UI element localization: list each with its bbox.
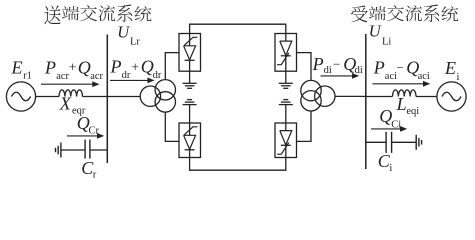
svg-text:Li: Li [382,36,391,47]
wire inductor to rectifier bus [83,96,108,98]
wire bus to rectifier transformer [107,96,140,98]
arrow Q_Cr flow [67,133,104,139]
svg-text:L: L [396,94,407,114]
svg-text:P: P [110,57,122,77]
svg-text:acr: acr [90,71,103,82]
ground (C_i) [416,135,421,150]
svg-text:+: + [131,60,139,75]
ground (rectifier neutral upper) [183,83,197,88]
label C_i [378,151,393,174]
wire transformer to lower valve [165,112,179,141]
svg-text:dr: dr [122,70,131,81]
svg-text:di: di [355,65,363,76]
svg-text:Lr: Lr [130,37,140,48]
svg-text:dr: dr [153,70,162,81]
svg-text:di: di [324,65,332,76]
transformer T_r winding 2 [155,80,175,100]
wire lower valve to transformer T_i [297,111,312,142]
svg-text:eqi: eqi [406,106,419,117]
arrow P_aci-Q_aci flow [372,81,430,87]
wire bus to capacitor C_i [366,141,386,143]
ground (inverter neutral upper) [279,83,293,88]
label P_acr+Q_acr [44,58,104,83]
transformer T_i winding 1 [301,80,321,100]
wire transformer to upper valve [165,53,179,80]
ground (inverter neutral lower) [279,100,293,105]
svg-text:r1: r1 [23,71,32,82]
wire upper valve to transformer T_i [297,53,312,81]
label P_aci-Q_aci [373,57,430,82]
wire valve V3 to ground [285,71,287,83]
wire inductor to source [416,96,437,98]
svg-text:U: U [369,21,382,40]
capacitor C_r [85,140,90,159]
label E_i [444,58,460,83]
wire ground to valve V2 [189,105,191,123]
arrow P_di-Q_di flow [321,73,360,79]
svg-text:Q: Q [78,58,91,78]
wire valve V1 to ground [189,71,191,83]
converter valve V1 (rectifier upper) [179,34,201,72]
svg-text:acr: acr [56,71,69,82]
converter valve V3 (inverter upper) [275,34,297,72]
svg-text:P: P [373,57,385,77]
transformer T_r winding 1 [140,86,160,106]
label U_Lr [117,23,140,48]
arrow P_acr+Q_acr flow [41,81,100,87]
inductor L_eqi [393,90,417,97]
label U_Li [369,21,392,47]
title: sending-end AC system (送端交流系统) [44,4,151,24]
AC source E_r1 [6,82,35,111]
wire ground to valve V4 [285,105,287,123]
label X_eqr [59,94,86,117]
svg-text:i: i [389,163,392,174]
bus U_Li [365,34,367,169]
svg-text:X: X [59,94,72,114]
wire capacitor C_i to ground [392,141,417,143]
converter valve V2 (rectifier lower) [179,123,201,158]
svg-text:E: E [11,58,23,78]
bus U_Lr [106,35,108,164]
capacitor C_i [386,132,392,153]
label Q_Ci [379,106,401,131]
wire transformer T_i to inverter bus [335,95,366,97]
svg-text:aci: aci [385,71,397,82]
arrow Q_Ci flow [371,126,407,132]
ground (C_r) [56,143,61,158]
transformer T_i winding 3 [315,86,335,106]
label P_di-Q_di [312,54,363,76]
wire bus to inductor [366,96,393,98]
wire DC pole top [190,24,286,33]
arrow P_dr+Q_dr flow [110,78,155,84]
svg-text:r: r [93,170,97,181]
label L_eqi [396,94,420,117]
svg-text:aci: aci [418,71,430,82]
svg-text:U: U [117,23,130,42]
label E_r1 [11,58,32,82]
svg-text:P: P [312,54,324,74]
svg-text:+: + [69,60,77,75]
AC source E_i [437,82,466,111]
transformer T_r winding 3 [155,92,175,112]
wire ground to capacitor C_r [61,149,85,151]
inductor X_eqr [59,90,83,97]
label C_r [81,158,97,181]
wire DC pole bottom [190,158,286,171]
ground (rectifier neutral lower) [183,100,197,105]
label P_dr+Q_dr [110,57,162,82]
label Q_Cr [77,113,100,137]
svg-text:E: E [444,58,456,78]
wire source to inductor [36,96,59,98]
svg-text:i: i [457,72,460,83]
svg-text:−: − [333,57,340,72]
wire capacitor C_r to bus [90,149,107,151]
converter valve V4 (inverter lower) [275,123,297,158]
svg-text:P: P [44,58,56,78]
transformer T_i winding 2 [301,91,321,111]
svg-text:−: − [396,60,403,75]
title: receiving-end AC system (受端交流系统) [351,4,458,22]
